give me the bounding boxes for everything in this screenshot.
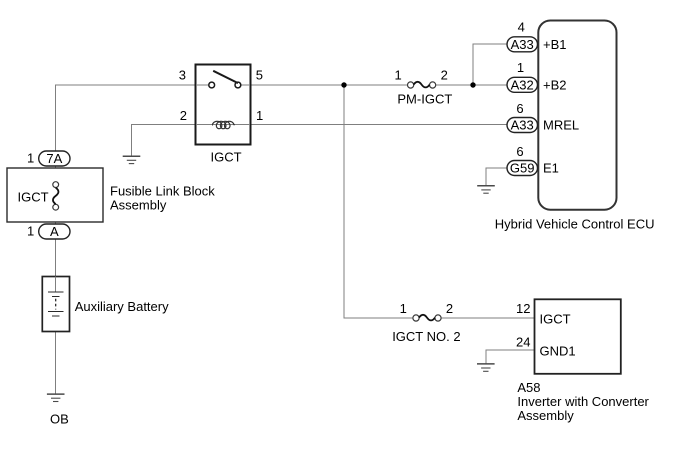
- inverter with converter assembly box: [535, 299, 621, 374]
- svg-text:1: 1: [27, 151, 34, 166]
- svg-text:A33: A33: [511, 118, 534, 133]
- battery stem top: [55, 277, 57, 293]
- svg-text:Auxiliary Battery: Auxiliary Battery: [75, 299, 169, 314]
- svg-text:12: 12: [516, 301, 530, 316]
- wire pin3 of relay to left vertical: [56, 84, 197, 86]
- svg-text:1: 1: [394, 68, 401, 83]
- svg-text:Assembly: Assembly: [110, 198, 167, 213]
- svg-text:IGCT: IGCT: [18, 190, 49, 205]
- Hybrid Vehicle Control ECU box: [538, 21, 616, 210]
- svg-text:1: 1: [400, 301, 407, 316]
- svg-text:1: 1: [27, 223, 34, 238]
- wire fuse IGCT NO.2 to inverter pin 12: [438, 317, 535, 319]
- svg-text:2: 2: [446, 301, 453, 316]
- ground for E1: [477, 186, 495, 193]
- connector oval 7A: [39, 151, 70, 166]
- svg-text:A58: A58: [517, 380, 540, 395]
- relay contact left terminal circle: [209, 82, 215, 88]
- ground OB: [47, 394, 65, 401]
- wire left vertical down to fusible link: [55, 85, 57, 186]
- svg-text:PM-IGCT: PM-IGCT: [397, 92, 452, 107]
- wire fuse PM-IGCT to A32: [433, 84, 508, 86]
- wire inverter GND1 to ground: [486, 350, 535, 364]
- ground for relay pin2: [123, 156, 141, 163]
- battery dashed divider: [55, 299, 57, 310]
- connector oval A32 +B2: [507, 77, 538, 92]
- fusible link element lower circle: [53, 204, 59, 210]
- svg-text:Fusible Link Block: Fusible Link Block: [110, 183, 215, 198]
- fuse IGCT NO.2 left circle: [413, 315, 419, 321]
- svg-text:MREL: MREL: [543, 118, 579, 133]
- junction dot at branch to IGCT NO.2: [341, 82, 346, 87]
- svg-text:GND1: GND1: [540, 344, 576, 359]
- fusible link block box: [7, 168, 103, 222]
- junction dot at branch to +B1: [470, 82, 475, 87]
- wire battery to ground OB: [55, 316, 57, 394]
- fuse IGCT NO.2 squiggle: [419, 315, 435, 321]
- svg-text:5: 5: [256, 68, 263, 83]
- connector oval G59 E1: [507, 161, 538, 176]
- svg-text:3: 3: [179, 68, 186, 83]
- svg-text:4: 4: [518, 20, 525, 35]
- fusible link squiggle: [53, 188, 59, 205]
- svg-text:Hybrid Vehicle Control ECU: Hybrid Vehicle Control ECU: [495, 217, 655, 232]
- wire relay pin2 to ground: [132, 125, 197, 157]
- svg-text:+B2: +B2: [543, 78, 567, 93]
- svg-text:A33: A33: [511, 37, 534, 52]
- svg-text:G59: G59: [510, 161, 535, 176]
- relay coil loops: [212, 121, 234, 128]
- svg-text:Assembly: Assembly: [517, 408, 574, 423]
- svg-text:E1: E1: [543, 161, 559, 176]
- svg-text:Inverter with Converter: Inverter with Converter: [517, 394, 649, 409]
- svg-text:6: 6: [516, 144, 523, 159]
- svg-text:6: 6: [516, 101, 523, 116]
- fuse PM-IGCT right circle: [430, 82, 436, 88]
- svg-text:IGCT: IGCT: [210, 150, 241, 165]
- svg-text:2: 2: [441, 68, 448, 83]
- battery plate short 2: [52, 315, 60, 317]
- fuse IGCT NO.2 right circle: [435, 315, 441, 321]
- ground for GND1: [477, 364, 495, 371]
- relay contact wire stub left: [196, 84, 209, 86]
- battery plate long 2: [48, 311, 64, 313]
- svg-text:1: 1: [256, 108, 263, 123]
- connector oval A33 MREL: [507, 118, 538, 133]
- wire fusible link lower to battery plate: [55, 207, 57, 292]
- svg-text:A: A: [50, 224, 59, 239]
- wire relay pin1 to MREL: [250, 124, 508, 126]
- svg-text:+B1: +B1: [543, 37, 567, 52]
- wire relay pin5 to fuse PM-IGCT: [250, 84, 411, 86]
- fuse PM-IGCT left circle: [408, 82, 414, 88]
- relay coil wire through: [196, 124, 250, 126]
- fuse PM-IGCT squiggle: [414, 82, 430, 88]
- svg-text:OB: OB: [50, 412, 69, 427]
- svg-text:7A: 7A: [46, 151, 62, 166]
- relay contact wire stub right: [241, 84, 250, 86]
- relay contact right terminal circle: [235, 82, 241, 88]
- svg-text:IGCT NO. 2: IGCT NO. 2: [392, 329, 460, 344]
- fusible link element upper circle: [53, 182, 59, 188]
- relay switch blade: [213, 71, 238, 83]
- relay IGCT box: [196, 65, 251, 145]
- wire E1 to ground: [486, 168, 508, 186]
- svg-text:2: 2: [180, 108, 187, 123]
- battery plate long 1: [48, 291, 64, 293]
- svg-text:24: 24: [516, 334, 530, 349]
- svg-text:A32: A32: [511, 78, 534, 93]
- wire branch up to +B1: [473, 44, 508, 85]
- auxiliary battery box: [42, 277, 69, 332]
- battery plate short 1: [52, 295, 60, 297]
- wire branch down to IGCT NO.2 fuse: [344, 85, 416, 318]
- connector oval A33 +B1: [507, 37, 538, 52]
- svg-text:1: 1: [517, 60, 524, 75]
- connector oval A: [39, 224, 70, 239]
- svg-text:IGCT: IGCT: [540, 311, 571, 326]
